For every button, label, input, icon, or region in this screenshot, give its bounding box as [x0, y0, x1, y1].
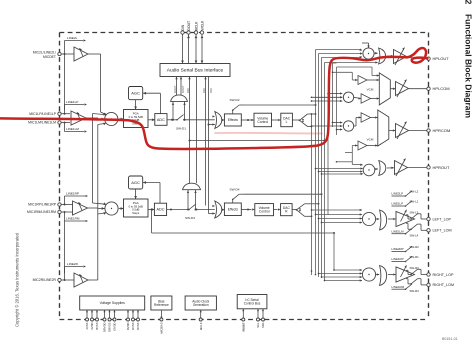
svg-text:AGC: AGC — [131, 180, 140, 185]
svg-text:HPRCOM: HPRCOM — [433, 128, 451, 133]
svg-text:MIC1RP/LINE1RP: MIC1RP/LINE1RP — [28, 203, 57, 207]
svg-text:DOUT: DOUT — [187, 21, 191, 31]
svg-text:MICDET: MICDET — [43, 55, 56, 59]
svg-text:HPLOUT: HPLOUT — [433, 56, 450, 61]
svg-text:SW-L1: SW-L1 — [410, 200, 419, 204]
svg-text:DIN: DIN — [181, 24, 185, 30]
svg-text:SW-D1: SW-D1 — [176, 127, 186, 131]
svg-text:Audio Serial Bus Interface: Audio Serial Bus Interface — [167, 68, 224, 74]
svg-text:SW-R4: SW-R4 — [410, 289, 420, 293]
svg-text:Voltage Supplies: Voltage Supplies — [100, 301, 126, 305]
svg-text:LINE2R: LINE2R — [67, 262, 79, 266]
svg-text:HPROUT: HPROUT — [433, 165, 450, 170]
svg-text:SW-D3: SW-D3 — [185, 216, 195, 220]
svg-text:2: 2 — [464, 0, 474, 5]
svg-text:LINE2RP: LINE2RP — [392, 247, 404, 251]
svg-text:Effects: Effects — [228, 207, 239, 211]
svg-text:Effects: Effects — [228, 118, 239, 122]
svg-text:LEFT_LOP: LEFT_LOP — [433, 217, 452, 221]
svg-text:WCLK: WCLK — [200, 20, 204, 31]
svg-text:LINE2LP: LINE2LP — [392, 192, 404, 196]
svg-text:MIC1RM/LINE1RM: MIC1RM/LINE1RM — [27, 210, 56, 214]
svg-text:SW-L4: SW-L4 — [410, 234, 419, 238]
svg-text:LEFT_LOM: LEFT_LOM — [433, 229, 452, 233]
svg-text:RIGHT_LOM: RIGHT_LOM — [433, 283, 455, 287]
svg-text:SW-D4: SW-D4 — [230, 188, 240, 192]
svg-text:SW-L3: SW-L3 — [410, 211, 419, 215]
svg-text:MIC1LP/LINE1LP: MIC1LP/LINE1LP — [29, 112, 56, 116]
svg-text:RIGHT_LOP: RIGHT_LOP — [433, 273, 454, 277]
svg-text:Control Bus: Control Bus — [244, 302, 261, 306]
svg-text:AGC: AGC — [131, 91, 140, 96]
svg-text:SW-D2: SW-D2 — [230, 98, 240, 102]
svg-text:LINE1RM: LINE1RM — [66, 217, 80, 221]
svg-text:SW-L2: SW-L2 — [410, 190, 419, 194]
svg-text:Functional Block Diagram: Functional Block Diagram — [464, 14, 474, 118]
svg-text:MIC2L/LINE2L/: MIC2L/LINE2L/ — [33, 51, 56, 55]
svg-text:LINE1LP: LINE1LP — [66, 100, 78, 104]
svg-text:MIC2R/LINE2R: MIC2R/LINE2R — [33, 278, 57, 282]
svg-text:LINE1RP: LINE1RP — [392, 257, 404, 261]
svg-text:LINE1RM: LINE1RM — [392, 285, 405, 289]
svg-text:MIC1LM/LINE1LM: MIC1LM/LINE1LM — [28, 121, 56, 125]
svg-text:B0151-01: B0151-01 — [442, 337, 458, 341]
svg-text:BCLK: BCLK — [194, 21, 198, 31]
svg-text:LINE1LM: LINE1LM — [66, 127, 79, 131]
svg-text:Control: Control — [257, 120, 268, 124]
svg-text:LINE1LM: LINE1LM — [392, 230, 405, 234]
svg-text:VCM: VCM — [367, 137, 374, 141]
svg-text:ADC: ADC — [156, 208, 164, 212]
svg-text:LINE2L: LINE2L — [67, 36, 78, 40]
svg-text:Copyright © 2016, Texas Instru: Copyright © 2016, Texas Instruments Inco… — [14, 232, 19, 327]
svg-text:Generation: Generation — [193, 303, 209, 307]
svg-text:VCM: VCM — [367, 87, 374, 91]
svg-text:LINE1LP: LINE1LP — [392, 202, 404, 206]
svg-text:Steps: Steps — [132, 211, 140, 215]
svg-text:SW-R1: SW-R1 — [410, 255, 420, 259]
svg-text:ADC: ADC — [157, 118, 165, 122]
svg-text:Reference: Reference — [154, 303, 169, 307]
svg-text:Control: Control — [259, 210, 270, 214]
svg-text:SW-R2: SW-R2 — [410, 245, 420, 249]
svg-text:HPLCOM: HPLCOM — [433, 86, 450, 91]
svg-text:L: L — [286, 120, 288, 124]
svg-text:LINE1RP: LINE1RP — [66, 192, 79, 196]
